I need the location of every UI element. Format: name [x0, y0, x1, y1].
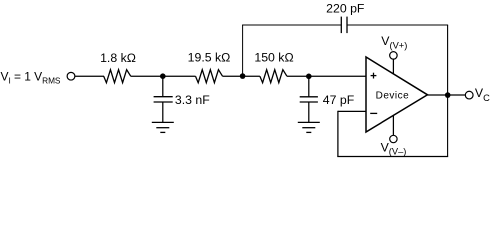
wire R1 to R2 — [131, 75, 196, 77]
wire feedback right vertical — [447, 25, 449, 157]
V+ supply stub — [392, 59, 394, 74]
ground under C1 — [152, 122, 174, 132]
resistor R3 150 k — [260, 70, 287, 83]
svg-text:150 kΩ: 150 kΩ — [254, 51, 293, 65]
svg-text:1.8 kΩ: 1.8 kΩ — [100, 51, 136, 65]
wire C1 to ground — [162, 102, 164, 122]
svg-text:3.3 nF: 3.3 nF — [175, 93, 210, 107]
node B junction dot — [240, 73, 246, 79]
ground under C2 — [298, 122, 320, 132]
capacitor C3 220 pF — [341, 17, 347, 33]
node C junction dot — [306, 74, 312, 80]
svg-text:Device: Device — [376, 91, 410, 102]
op-amp U1 triangle — [366, 57, 428, 132]
output node junction dot — [445, 92, 451, 98]
wire C2 to ground — [308, 102, 310, 122]
wire node A down to C1 — [162, 76, 164, 96]
V+ supply terminal circle — [390, 52, 398, 60]
output terminal circle — [465, 91, 473, 99]
capacitor C2 47 pF — [300, 97, 318, 102]
resistor R1 1.8 k — [104, 70, 131, 83]
capacitor C1 3.3 nF — [154, 97, 173, 102]
svg-text:220 pF: 220 pF — [326, 2, 365, 16]
node A junction dot — [160, 73, 166, 79]
op-amp minus input symbol — [370, 112, 377, 114]
input terminal circle — [67, 72, 75, 80]
wire node C down to C2 — [308, 76, 310, 97]
wire input to R1 — [75, 75, 104, 77]
svg-text:47 pF: 47 pF — [323, 93, 355, 107]
wire feedback bottom horizontal — [337, 156, 448, 158]
V- supply stub — [392, 115, 394, 135]
wire feedback top right — [347, 24, 448, 26]
V- supply terminal circle — [390, 135, 397, 142]
wire feedback top left — [242, 24, 341, 26]
wire R3 to op-amp — [287, 75, 366, 77]
wire op-amp output — [428, 94, 466, 96]
wire feedback bottom left vertical — [337, 111, 339, 157]
op-amp plus input symbol — [371, 73, 377, 79]
resistor R2 19.5 k — [196, 70, 223, 83]
wire inverting input stub — [338, 110, 366, 112]
wire R2 to R3 — [223, 75, 260, 77]
svg-text:19.5 kΩ: 19.5 kΩ — [188, 51, 231, 65]
wire node B up to feedback — [242, 25, 244, 76]
